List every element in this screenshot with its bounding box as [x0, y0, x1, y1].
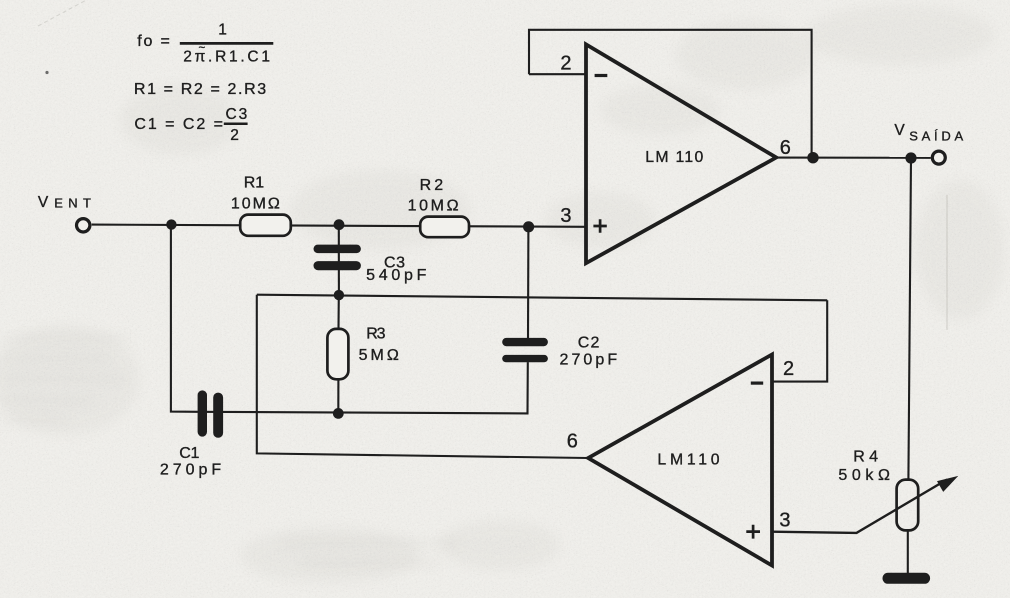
svg-text:270pF: 270pF	[560, 352, 618, 369]
svg-text:2: 2	[230, 127, 239, 144]
svg-text:2: 2	[560, 52, 571, 74]
svg-text:6: 6	[780, 137, 791, 159]
svg-text:3: 3	[779, 510, 790, 532]
svg-text:~: ~	[199, 43, 206, 55]
svg-text:V: V	[894, 122, 905, 139]
svg-text:V: V	[38, 194, 49, 211]
svg-text:C1: C1	[179, 445, 199, 462]
svg-text:5MΩ: 5MΩ	[359, 347, 399, 364]
svg-text:fo =: fo =	[137, 33, 171, 50]
svg-text:ENT: ENT	[54, 195, 91, 210]
svg-text:3: 3	[560, 205, 571, 227]
svg-text:SAÍDA: SAÍDA	[909, 128, 963, 143]
svg-text:10MΩ: 10MΩ	[231, 196, 280, 213]
svg-text:6: 6	[567, 431, 578, 453]
svg-text:C2: C2	[578, 335, 600, 352]
svg-text:2: 2	[783, 358, 794, 380]
svg-text:R3: R3	[366, 326, 385, 343]
svg-text:1: 1	[218, 22, 227, 39]
svg-text:R1: R1	[244, 174, 264, 191]
svg-text:10MΩ: 10MΩ	[408, 197, 459, 214]
svg-text:C3: C3	[226, 106, 248, 123]
svg-text:R1 = R2 = 2.R3: R1 = R2 = 2.R3	[134, 81, 266, 98]
svg-text:C1 = C2 =: C1 = C2 =	[134, 116, 223, 133]
